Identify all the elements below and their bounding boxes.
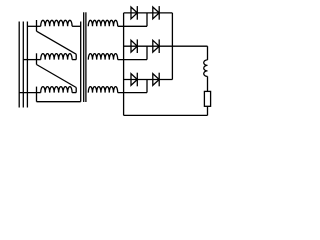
node bar primary winding 3 start: [36, 87, 38, 102]
transformer core: [83, 12, 85, 102]
wire secondary phase 1 to bridge midpoint: [118, 25, 147, 27]
wire phase 1 stub up to diode row 1: [146, 13, 148, 26]
diode V2: [153, 7, 159, 19]
wire W3 end: [72, 92, 76, 94]
wire inductor to resistor: [207, 76, 209, 91]
node bar primary winding 2 start: [36, 53, 38, 64]
negative DC bus: [123, 13, 125, 116]
diode V1: [131, 7, 137, 19]
wire load drop: [207, 46, 209, 60]
secondary winding W4: [88, 20, 117, 26]
three-phase line L3: [26, 22, 28, 108]
wire phase 3 stub up to diode row 3: [146, 80, 148, 93]
wire positive bus to load: [172, 45, 207, 47]
diode V5: [131, 74, 137, 86]
diode V3: [131, 40, 137, 52]
wire secondary phase 2 to bridge midpoint: [118, 59, 147, 61]
wire delta: W1 end down to phase-3 node: [80, 22, 82, 102]
wire tap phase 2 to primary winding 2: [23, 59, 36, 61]
wire bridge row 2: [124, 45, 173, 47]
wire delta return: [37, 101, 81, 103]
wire tap phase 3 to primary winding 3: [19, 92, 36, 94]
secondary winding W5: [88, 54, 117, 60]
primary winding W2: [37, 59, 41, 61]
wire resistor to bottom rail: [207, 106, 209, 115]
three-phase line L1: [18, 22, 20, 108]
diode V4: [153, 40, 159, 52]
diode V6: [153, 74, 159, 86]
wire delta slant W3-end to phase-2 node: [37, 65, 77, 88]
smoothing inductor Ld: [204, 60, 208, 77]
primary winding W3: [37, 92, 41, 94]
wire secondary phase 3 to bridge midpoint: [118, 92, 147, 94]
wire delta: W2 end up: [75, 54, 77, 59]
wire delta: W3 end up: [75, 88, 77, 93]
wire delta slant W2-end to phase-1 node: [37, 31, 77, 54]
wire bridge row 1: [124, 12, 173, 14]
positive DC bus: [171, 13, 173, 80]
wire phase 2 stub up to diode row 2: [146, 46, 148, 59]
node bar primary winding 1 start: [36, 20, 38, 31]
three-phase line L2: [22, 22, 24, 108]
secondary winding W6: [88, 87, 117, 93]
wire W1 end to long vertical: [72, 25, 81, 27]
wire tap phase 1 to primary winding 1: [27, 25, 36, 27]
primary winding W1: [37, 25, 41, 27]
wire W2 end: [72, 59, 76, 61]
load resistor Rd: [204, 91, 210, 106]
wire bridge row 3: [124, 79, 173, 81]
wire bottom rail: [124, 114, 208, 116]
